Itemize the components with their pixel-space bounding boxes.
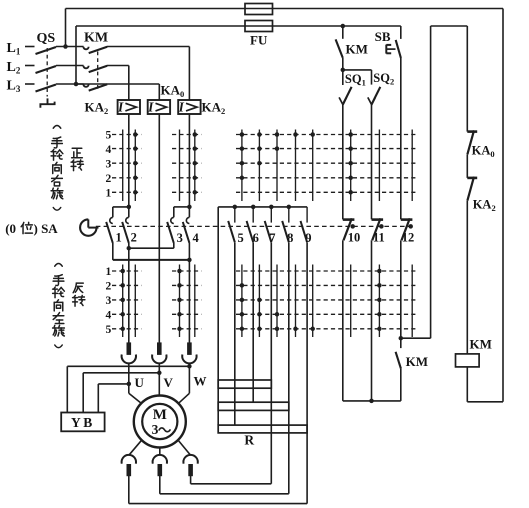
SA bracket contacts 1-2 [113,207,129,217]
wire L3 row to relay column V [76,84,159,100]
node bus contact 6 [251,205,256,210]
wire KA chain top [466,26,468,132]
svg-text:11: 11 [373,230,385,244]
wire L2 row to relay column U [107,66,129,101]
KM linkage (dashed) [97,52,99,91]
node SA feed 1-2 [127,205,132,210]
connector plug V (stator) [152,342,166,363]
node bus contact 5 [233,205,238,210]
svg-text:3: 3 [106,295,112,307]
svg-text:7: 7 [269,231,275,245]
svg-text:9: 9 [305,231,311,245]
svg-text:I: I [147,99,154,114]
wire contact 7 through resistor 1 to motor lead [270,242,272,484]
SA chart column contact 2 [133,130,138,338]
wire motor to bottom connector middle [159,449,161,456]
node bus contact 7 [269,205,274,210]
wire L1 row to relay column W [107,47,189,101]
svg-text:U: U [135,375,145,390]
connector plug W (stator) [182,342,196,363]
contactor KM auxiliary contact (zero start) [396,338,401,401]
wire contact 5 to resistor tap 3 [234,242,236,425]
svg-text:M: M [153,407,167,423]
node contact 2 output [127,246,132,251]
wire KM coil return [467,367,503,402]
cam contact 9 [301,207,308,242]
wire control feed from L3 junction through FU to SB [76,25,401,27]
disconnect switch QS pole L1 [36,47,84,55]
wire riser L1 to top bus [65,9,67,47]
wire bottom right to resistor 1 end [191,476,272,484]
node contact 12 branch [399,336,404,341]
svg-text:2: 2 [106,281,112,293]
overcurrent relay KA0 (middle, I>) [147,99,170,114]
svg-text:KM: KM [406,354,428,369]
wire contact 3 output link to U column [129,243,174,248]
node L3 junction [74,82,79,87]
disconnect switch QS pole L2 [36,66,84,74]
cam contact 2 [122,217,129,243]
brake YB [61,413,104,432]
cam contact 10 [343,218,355,240]
wire SA bus down to resistor bank R [217,207,219,425]
svg-text:R: R [244,433,254,448]
pushbutton SB (NC) [386,26,401,219]
svg-text:YB: YB [71,415,95,430]
svg-text:) SA: ) SA [34,221,59,236]
overcurrent relay KA2 (left, I>) [117,99,140,114]
svg-text:2: 2 [106,173,112,185]
SA chart column contact 11 [377,130,382,338]
disconnect switch QS pole L3 [36,84,84,92]
node L1 junction [63,44,68,49]
wire relay W column down to SA [188,114,190,207]
svg-text:1: 1 [106,188,112,200]
annotation (handwheel turn right) vertical [51,126,63,211]
svg-text:3: 3 [106,158,112,170]
node SA feed 3-4 [187,205,192,210]
svg-text:V: V [164,375,174,390]
SA chart column contact 6 [257,130,262,338]
svg-text:KM: KM [346,42,368,57]
wire contact 9 through resistor 3 to motor lead [306,242,308,503]
SA feed bus contacts 5-9 [218,206,307,208]
SA position chart forward rows (dashed) [112,135,416,193]
svg-text:FU: FU [250,33,268,48]
wire lead L2 [25,65,35,67]
SA chart column contact 7 [275,130,280,338]
contactor KM main contact L3 [83,84,107,90]
wire U into motor [129,393,141,403]
resistor R element 2 [218,402,289,410]
annotation reverse rotation [73,283,85,306]
contactor coil KM [456,354,480,367]
cam contact 5 [228,207,235,242]
wire W into motor [179,393,190,403]
svg-text:2: 2 [131,231,137,245]
contactor KM auxiliary contact (self-hold) [336,26,343,70]
svg-text:QS: QS [37,31,56,46]
svg-text:(0: (0 [5,221,16,236]
wire contact 12 output [400,240,402,338]
svg-text:W: W [194,374,207,389]
svg-text:5: 5 [106,130,112,142]
connector plug bottom middle [153,455,167,476]
node bus contact 8 [287,205,292,210]
wire relay V column down to connector [158,114,160,343]
svg-text:4: 4 [106,144,112,156]
wire contact 4 output down to connector W [188,243,190,343]
wire connector to U terminal [128,363,130,393]
cam contact 6 [247,207,254,242]
SA chart column contact 5 [240,130,245,338]
svg-text:KM: KM [84,31,108,46]
wire control return bus [343,400,401,402]
cam contact 1 [106,217,113,243]
svg-text:5: 5 [237,231,243,245]
contactor KM main contact L1 [83,47,107,53]
node V tap [157,371,162,376]
cam contact 3 [167,217,174,243]
node control branch [341,24,346,29]
contactor KM main contact L2 [83,66,107,72]
wire lead L1 [25,46,35,48]
SA chart column contact 1 [120,130,125,338]
motor M 3-phase [134,396,186,448]
QS linkage (dashed) [46,48,48,97]
wire bracket to SQ2 [343,70,372,85]
wire connector to V terminal [158,363,160,396]
SA chart column contact 10 [348,130,353,338]
limit switch SQ2 (NC) [368,87,381,220]
fuse FU (two elements) [245,4,273,32]
SA chart column contact 12 [411,130,413,338]
svg-text:SB: SB [375,29,391,44]
svg-text:1: 1 [106,266,112,278]
wire contact 1 output to reverse bus [112,243,114,260]
node contact 4 output [187,258,192,263]
reverse position digits 1-5 [106,266,112,336]
SA chart column contact 9 [310,130,315,338]
wire motor to bottom connector right [179,441,191,456]
forward position digits 5-1 [106,130,112,200]
svg-text:3: 3 [152,422,159,437]
overcurrent relay KA2 (right, I>) [178,99,201,114]
node contact 11 zero-position [379,224,384,229]
SA bracket contacts 3-4 [174,207,190,217]
wire YB to W [67,366,189,412]
connector plug bottom left [122,455,136,476]
relay contact KA2 (NO) [467,177,477,354]
svg-text:12: 12 [402,230,415,244]
wire YB to U [98,384,129,413]
SA chart column contact 8 [293,130,298,338]
cam contact 7 [265,207,272,242]
node SQ branch [341,68,346,73]
node W tap [187,364,192,369]
svg-text:5: 5 [106,324,112,336]
connector plug bottom right [183,455,197,476]
wire contact 11 output [371,240,373,401]
wire reverse bus contact1-contact4 [113,259,190,261]
limit switch SQ1 (NC) [339,70,352,220]
wire lead L3 [25,83,35,85]
SA chart column contact 4 [193,130,198,338]
wire YB to V [83,373,159,413]
wire bottom left to resistor 3 end [129,476,307,504]
svg-text:I: I [117,99,124,114]
cam contact 12 [401,218,413,240]
wire top bus from L1 junction through FU to right edge [66,9,504,402]
cam switch SA operator symbol [80,219,96,235]
wire connector to W terminal [188,363,190,393]
annotation (handwheel turn left) vertical [53,264,65,348]
connector plug U (stator) [122,342,136,363]
wire riser L3 to control feed [75,26,77,84]
resistor R element 3 [218,425,307,433]
wire contact 2 output down to connector U [128,243,130,343]
cam contact 4 [183,217,190,243]
wire contact 10 output [342,240,344,401]
wire branch to KA chain [401,26,468,338]
node U tap [127,382,132,387]
cam contact 8 [282,207,289,242]
svg-text:I: I [178,99,185,114]
cam contact 11 [372,218,384,240]
node contact 12 zero-position [408,224,413,229]
svg-text:1: 1 [115,231,121,245]
node contact 11 to bus [369,399,374,404]
wire relay U column down to SA [128,114,130,207]
annotation 0-position glyph [21,222,32,233]
node contact 10 zero-position [350,224,355,229]
svg-text:10: 10 [348,230,361,244]
svg-text:4: 4 [106,310,112,322]
svg-text:3: 3 [177,231,183,245]
wire bottom middle to resistor 2 end [160,476,289,494]
SA chart column contact 3 [177,130,182,338]
wire contact 8 through resistor 2 to motor lead [288,242,290,494]
SA position chart reverse rows (dashed) [112,271,416,329]
svg-text:4: 4 [192,231,199,245]
wire contact 6 to resistor tap 2 [252,242,254,402]
relay contact KA0 (NO) [467,130,477,178]
resistor R element 1 [218,380,271,388]
cam switch SA zero-position line (dashed) [96,225,415,227]
svg-text:KM: KM [470,336,492,351]
QS operator handle symbol [40,102,54,108]
annotation forward rotation [71,148,83,170]
wire motor to bottom connector left [129,441,141,456]
